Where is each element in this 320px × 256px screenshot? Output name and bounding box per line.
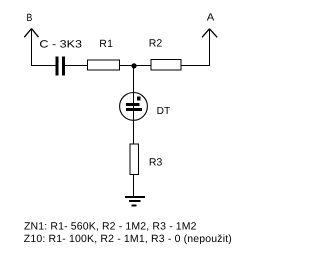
svg-text:B: B: [27, 12, 33, 24]
svg-text:A: A: [207, 11, 215, 23]
svg-text:R1: R1: [99, 38, 113, 50]
svg-text:ZN1: R1- 560K, R2 - 1M2, R3 -: ZN1: R1- 560K, R2 - 1M2, R3 - 1M2: [24, 221, 197, 233]
svg-text:R3: R3: [149, 156, 163, 168]
svg-text:Z10: R1- 100K, R2 - 1M1, R3 -: Z10: R1- 100K, R2 - 1M1, R3 - 0 (nepouži…: [24, 233, 232, 245]
svg-text:DT: DT: [157, 106, 171, 117]
svg-text:C - 3K3: C - 3K3: [39, 39, 82, 51]
svg-text:R2: R2: [149, 38, 163, 50]
